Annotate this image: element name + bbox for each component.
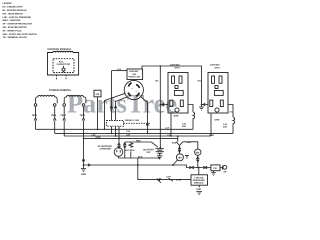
wire TB-2 down — [83, 121, 85, 166]
connector marks charger loop — [124, 143, 127, 148]
wire HM to bottom — [173, 160, 178, 165]
ignition module inner dashed box — [53, 59, 74, 73]
ground symbol left — [81, 165, 86, 172]
svg-text:TB-1: TB-1 — [32, 114, 38, 117]
node ground junction — [83, 164, 85, 166]
bus1 L1A — [36, 128, 194, 130]
svg-text:LOW OIL: LOW OIL — [195, 176, 205, 179]
connector arrow on bottom wire — [88, 164, 90, 167]
dashed line extension — [124, 122, 151, 124]
circuit breaker CB main box — [94, 90, 101, 97]
circuit breaker CB1 20A — [193, 112, 195, 129]
wire LOP drop — [138, 165, 191, 180]
wire twist-lock bottom-left to connector — [116, 97, 128, 121]
svg-text:TB-2: TB-2 — [80, 114, 86, 117]
AC battery charger wires — [118, 138, 120, 147]
svg-text:20A: 20A — [182, 125, 186, 128]
charger loop left vertical — [124, 142, 126, 158]
GFCI receptacle 2 box — [208, 73, 228, 114]
node top wire — [160, 65, 162, 67]
svg-text:4-C: 4-C — [230, 111, 234, 114]
starter protector zigzag — [129, 142, 133, 148]
wire RED horizontal — [125, 141, 152, 143]
GFCI1 ground wire GRN — [170, 113, 172, 136]
GFCI1 breaker wire — [188, 105, 193, 113]
svg-text:SP - SPARK PLUG: SP - SPARK PLUG — [3, 29, 22, 32]
svg-text:GRN: GRN — [209, 134, 214, 137]
wire top-left vertical to connector — [111, 71, 113, 121]
power winding coil 2 — [64, 95, 86, 103]
node twistlock bus1 — [104, 129, 106, 131]
twist-lock label box — [127, 69, 143, 80]
node bottom battery drop — [137, 164, 139, 166]
wire CB to bus1 — [97, 97, 99, 130]
wire TB-3 to bus2 — [54, 121, 56, 134]
svg-text:CHARGER: CHARGER — [100, 148, 112, 151]
svg-text:BATTERY: BATTERY — [143, 148, 154, 151]
svg-text:LOP - LOW OIL PRESSURE: LOP - LOW OIL PRESSURE — [3, 16, 32, 19]
terminal rings TB — [34, 104, 37, 107]
connector arrows below SSS — [178, 147, 181, 154]
svg-text:HM: HM — [178, 157, 182, 160]
GFCI 2 outlet face — [210, 76, 224, 112]
terminal block labels — [32, 114, 86, 117]
svg-text:SSS: SSS — [172, 141, 177, 144]
LOP switch — [169, 178, 173, 181]
wire connector pin to bus4 — [118, 126, 120, 138]
wire below connector to buses — [112, 126, 116, 136]
svg-text:20A: 20A — [223, 125, 227, 128]
node diamond — [172, 164, 174, 166]
svg-text:C.B.: C.B. — [182, 122, 187, 125]
bus2 — [55, 132, 233, 134]
svg-text:TWIST-LOK: TWIST-LOK — [128, 76, 140, 79]
zigzag to bottom wire — [130, 152, 132, 159]
hour meter HM circle — [176, 154, 183, 161]
power winding coil 1 — [36, 95, 58, 103]
svg-text:POWER WINDING: POWER WINDING — [49, 89, 71, 92]
svg-text:12V: 12V — [146, 151, 151, 154]
svg-text:AC BATTERY: AC BATTERY — [98, 145, 113, 148]
spark gap symbol inside IM — [63, 66, 65, 73]
node GFCI2 tap — [201, 104, 203, 106]
wire RED to starter — [183, 142, 198, 149]
connector arrow right wire — [146, 123, 149, 125]
bus3 — [64, 135, 211, 137]
svg-text:GRN: GRN — [215, 118, 220, 121]
GFCI 1 outlet face — [170, 76, 184, 112]
module ground — [198, 185, 200, 187]
node module drop — [198, 167, 200, 169]
switch SSS start/stop — [176, 142, 183, 147]
svg-text:SSS - START AND STOP SWITCH: SSS - START AND STOP SWITCH — [3, 33, 38, 36]
ignition module IM box — [48, 51, 79, 75]
svg-text:CAPACITOR: CAPACITOR — [57, 63, 71, 66]
twist-lock receptacle circle — [124, 80, 143, 99]
connector marks on lower right wire — [189, 166, 207, 169]
wire TB-4 to bus3 — [63, 121, 65, 137]
svg-text:120/240 V 30A: 120/240 V 30A — [125, 119, 140, 122]
svg-text:BLK-RED: BLK-RED — [125, 149, 135, 152]
ground symbol below right vertical — [199, 107, 204, 110]
svg-text:SM: SM — [196, 151, 200, 154]
wire twist-lock left elbow to bus1 — [105, 93, 126, 129]
twist-lock slots — [128, 83, 139, 96]
legend text block — [3, 2, 38, 39]
wire W1 into GFCI1 — [159, 66, 161, 148]
switch SSS battery — [151, 142, 158, 147]
wire L1A into twist-lock — [112, 70, 128, 72]
svg-text:GND: GND — [196, 188, 201, 191]
svg-text:CB: CB — [96, 93, 100, 96]
svg-text:RED: RED — [136, 140, 141, 143]
svg-text:LEGEND: LEGEND — [3, 2, 13, 5]
svg-text:PRESSURE: PRESSURE — [193, 179, 206, 182]
starter motor SM circle — [195, 149, 201, 155]
node battery minus — [158, 157, 160, 159]
svg-text:RED: RED — [187, 141, 192, 144]
ground below CB box — [211, 171, 216, 176]
svg-text:L1A: L1A — [117, 68, 122, 71]
node vert bus2 — [111, 133, 113, 135]
connector arrows on verticals — [110, 106, 117, 108]
svg-text:GRN: GRN — [174, 114, 179, 117]
svg-text:HM - HOUR METER: HM - HOUR METER — [3, 12, 23, 15]
svg-text:TB-4: TB-4 — [60, 114, 66, 117]
wire module drop — [198, 168, 200, 175]
node CB bus1 — [97, 129, 99, 131]
engine stop CB box — [211, 165, 220, 171]
top wire from twist-lock to receptacles — [142, 66, 202, 107]
battery top wire from W1 vertical — [159, 148, 161, 149]
svg-text:MODULE: MODULE — [194, 182, 204, 185]
bus labels — [92, 126, 215, 139]
LOP wire details — [157, 178, 161, 183]
charger plug circle — [114, 148, 123, 157]
svg-text:TB-3: TB-3 — [51, 114, 57, 117]
svg-text:120V/20A: 120V/20A — [210, 64, 220, 67]
charger bottom wire — [119, 156, 160, 158]
wire battery circuit to bottom — [137, 158, 139, 165]
node charger tap — [118, 138, 120, 140]
SSS switch drop — [177, 135, 179, 137]
svg-text:SM - STARTER MOTOR: SM - STARTER MOTOR — [3, 26, 28, 29]
charger connector arrows — [118, 143, 121, 148]
wire TB-1 to bus1 — [35, 121, 37, 130]
svg-text:C.B.: C.B. — [223, 123, 228, 126]
svg-text:L2A: L2A — [92, 133, 97, 136]
svg-text:IM - IGNITION MODULE: IM - IGNITION MODULE — [3, 9, 28, 12]
bottom wire main — [84, 165, 211, 168]
connector mark on TB-2 ground wire — [82, 160, 85, 161]
GFCI2 ground wire GRN — [210, 113, 212, 136]
svg-text:120V/20A: 120V/20A — [170, 64, 180, 67]
dashed connector box — [107, 121, 124, 127]
svg-text:NEUT - NEUTRAL: NEUT - NEUTRAL — [3, 19, 22, 22]
svg-text:ES - ENGINE STOP: ES - ENGINE STOP — [3, 6, 23, 9]
svg-text:L2A: L2A — [126, 134, 131, 137]
connector arrow into GFCI1 — [160, 103, 168, 106]
battery ground — [157, 153, 162, 159]
IM dashed kill wires — [57, 75, 67, 80]
svg-text:GFCI: GFCI — [215, 66, 221, 69]
svg-text:SP - STARTER PROTECTOR: SP - STARTER PROTECTOR — [3, 23, 33, 26]
svg-text:GRN: GRN — [96, 136, 101, 139]
node right wire bus2 — [147, 133, 149, 135]
svg-text:30A: 30A — [132, 73, 136, 76]
svg-text:KILL: KILL — [59, 61, 65, 64]
terminal connector arrows — [34, 107, 85, 121]
battery symbol — [156, 149, 164, 154]
connector below SM — [197, 155, 200, 167]
svg-text:BLK: BLK — [138, 156, 143, 159]
svg-text:TB - TERMINAL BLOCK: TB - TERMINAL BLOCK — [3, 36, 28, 39]
small ground right of HM — [185, 155, 189, 158]
GFCI receptacle 1 box — [168, 73, 188, 114]
GFCI2 breaker wire — [228, 105, 233, 118]
svg-text:L1A: L1A — [165, 126, 170, 129]
svg-text:CB: CB — [213, 167, 217, 170]
node TB-2 bus4 — [83, 138, 85, 140]
svg-text:GND: GND — [81, 173, 86, 176]
svg-text:120/240V: 120/240V — [129, 70, 139, 73]
node vert bus3 — [115, 135, 117, 137]
svg-text:L1A: L1A — [126, 130, 131, 133]
node GFCI1 tap — [160, 104, 162, 106]
bus4 — [84, 137, 178, 139]
connector arrow into GFCI2 — [202, 103, 209, 106]
svg-text:GFCI: GFCI — [175, 66, 181, 69]
svg-text:IGNITION MODULE: IGNITION MODULE — [48, 48, 72, 51]
spark plug SP — [220, 166, 223, 170]
low oil pressure module box — [191, 175, 208, 185]
wire twist-lock right to bus2 — [141, 97, 148, 134]
circuit breaker CB2 20A — [233, 117, 235, 133]
